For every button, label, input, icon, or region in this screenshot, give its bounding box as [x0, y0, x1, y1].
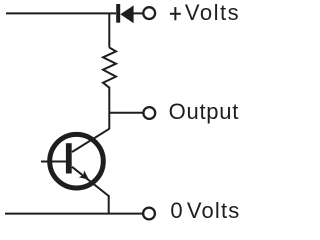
- svg-text:Output: Output: [169, 99, 240, 124]
- svg-text:0: 0: [170, 198, 182, 223]
- svg-text:Volts: Volts: [187, 198, 241, 223]
- svg-text:Volts: Volts: [185, 0, 240, 25]
